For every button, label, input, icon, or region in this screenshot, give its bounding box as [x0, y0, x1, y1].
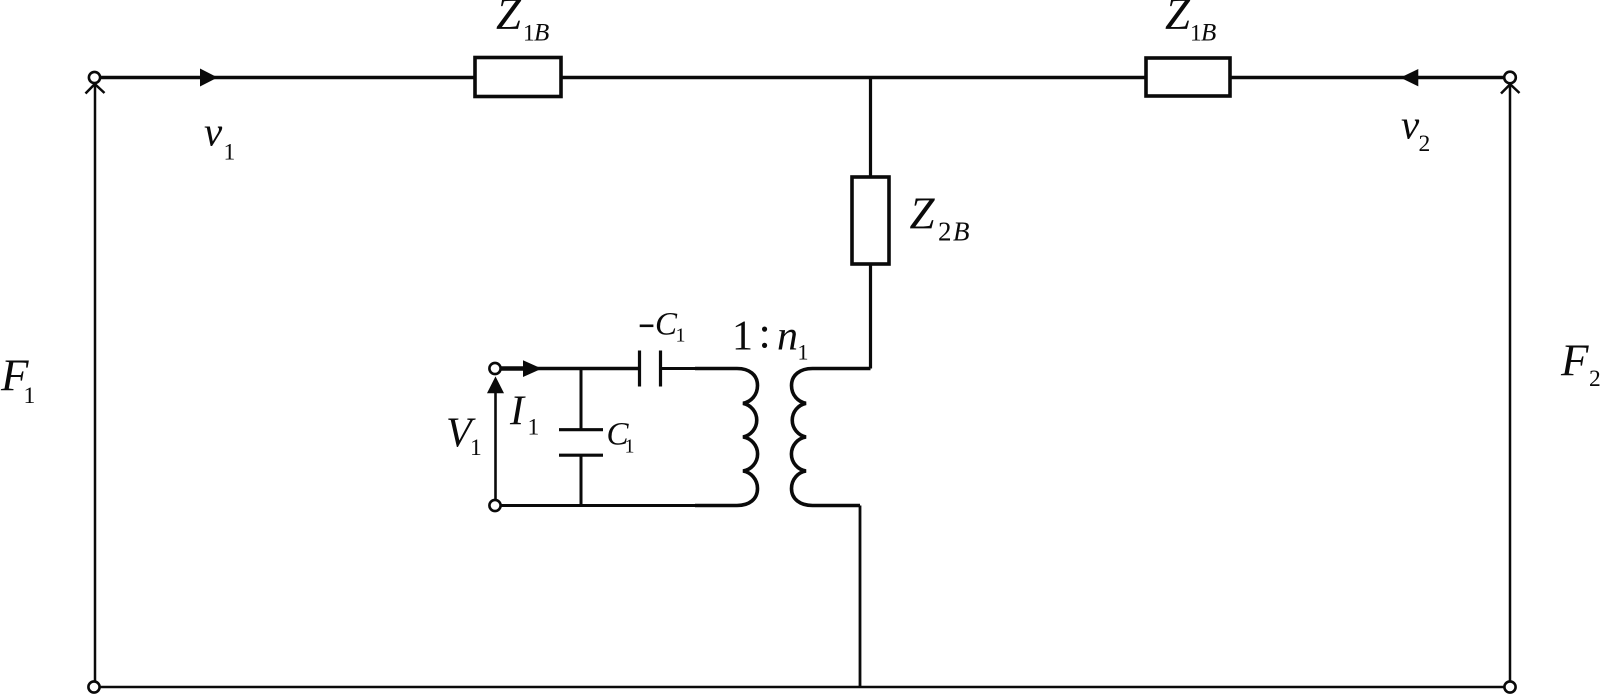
arrow v1 direction (filled right)	[201, 69, 217, 85]
svg-text:B: B	[953, 217, 970, 247]
terminal V1 bottom	[489, 500, 500, 511]
arrow up open head on left wire	[86, 84, 105, 94]
transformer primary winding (left)	[695, 369, 758, 506]
arrow V1 (filled up)	[494, 393, 497, 500]
label -C1 (series capacitor)	[640, 324, 654, 327]
svg-text:1: 1	[470, 435, 482, 461]
svg-text:v: v	[204, 108, 223, 154]
svg-text:1: 1	[732, 313, 753, 359]
arrow I1 (filled right)	[524, 361, 541, 376]
wire right vertical F2 port	[1509, 85, 1512, 682]
wire C1 bottom branch	[580, 455, 583, 505]
svg-text:1: 1	[1190, 21, 1202, 47]
terminal bottom-right	[1504, 681, 1515, 692]
arrow v2 direction (filled left)	[1402, 70, 1418, 86]
wire inner top: terminal to -C1	[501, 367, 640, 370]
wire Z2B down to transformer secondary	[869, 264, 872, 369]
svg-text:I: I	[509, 389, 526, 435]
wire top: left terminal to Z1B left	[101, 76, 476, 79]
resistor Z1B left box	[475, 58, 561, 97]
resistor Z1B right box	[1146, 58, 1230, 96]
resistor Z2B box	[852, 177, 889, 264]
wire top: Z1B left to center junction to Z1B right	[561, 76, 1146, 79]
svg-text:B: B	[1201, 20, 1216, 47]
svg-text:1: 1	[224, 140, 236, 166]
svg-text:1: 1	[625, 436, 635, 458]
capacitor -C1 plates	[638, 351, 641, 387]
wire left vertical F1 port	[94, 84, 97, 681]
svg-text:Z: Z	[910, 189, 936, 239]
transformer secondary winding (right)	[791, 369, 870, 506]
arrow up open head on right wire	[1501, 84, 1520, 93]
svg-text:B: B	[534, 20, 549, 47]
svg-text:1: 1	[676, 325, 686, 347]
wire center junction down to Z2B	[869, 78, 872, 178]
svg-text::: :	[759, 309, 771, 358]
terminal top-left	[89, 72, 100, 83]
svg-text:2: 2	[1589, 366, 1600, 392]
svg-text:n: n	[777, 313, 798, 359]
svg-text:F: F	[1560, 335, 1589, 385]
svg-text:1: 1	[24, 383, 36, 409]
wire inner bottom	[501, 504, 707, 507]
capacitor C1 plates	[559, 428, 603, 431]
svg-text:2: 2	[938, 217, 952, 247]
svg-text:1: 1	[523, 21, 535, 47]
svg-text:2: 2	[1419, 131, 1431, 157]
wire bottom horizontal	[100, 686, 1505, 689]
terminal top-right	[1504, 72, 1516, 84]
terminal V1 top	[489, 363, 500, 374]
svg-text:1: 1	[798, 339, 809, 364]
svg-text:1: 1	[528, 415, 540, 441]
wire secondary bottom down to bottom rail	[859, 506, 862, 688]
terminal bottom-left	[88, 681, 99, 692]
wire top: Z1B right to right terminal	[1230, 76, 1504, 79]
node C1 branch top	[580, 369, 583, 430]
svg-text:Z: Z	[1165, 0, 1191, 39]
svg-text:v: v	[1401, 102, 1420, 148]
svg-text:Z: Z	[496, 0, 522, 39]
wire -C1 to primary winding	[661, 367, 707, 370]
